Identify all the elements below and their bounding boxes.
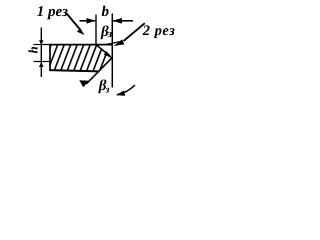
plate top edge (49, 44, 112, 46)
svg-text:h: h (26, 46, 41, 53)
h top arrowhead (down, tip at top edge) (39, 40, 44, 45)
h bottom arrowhead (up, tip at bottom ext) (39, 62, 44, 67)
svg-text:b: b (102, 4, 110, 20)
leader arrow for 2 rez (124, 23, 145, 41)
b extension line left (95, 15, 97, 46)
cut 1 arrowhead at apex (104, 51, 113, 58)
small arc top-right (beta3 top angle arc) (105, 42, 120, 45)
bottom angle arc with arrowhead (beta3 bottom) (117, 85, 135, 95)
h dimension line (continuous) (40, 28, 42, 78)
cut 2 arrowhead (lower-left end) (79, 80, 89, 87)
svg-text:1 рез: 1 рез (37, 4, 68, 20)
vertical line x=112 (b extension / cut face vertical) (111, 14, 113, 88)
h bottom extension line (34, 61, 50, 63)
plate cross-section (hatched material polygon) (50, 45, 113, 72)
b dimension left arrow (80, 20, 96, 22)
b dimension right arrow (113, 20, 133, 22)
bevel cut 1 line (upper bevel) (96, 45, 110, 57)
leader arrow for 1 rez (66, 13, 80, 29)
plate left edge (49, 44, 51, 71)
svg-text:2 рез: 2 рез (142, 23, 176, 39)
h top extension line (34, 44, 50, 46)
svg-text:з: з (107, 28, 113, 40)
plate bottom edge (49, 70, 99, 71)
svg-text:з: з (105, 85, 110, 96)
bevel cut 2 line (lower bevel, extends below plate) (86, 58, 112, 84)
